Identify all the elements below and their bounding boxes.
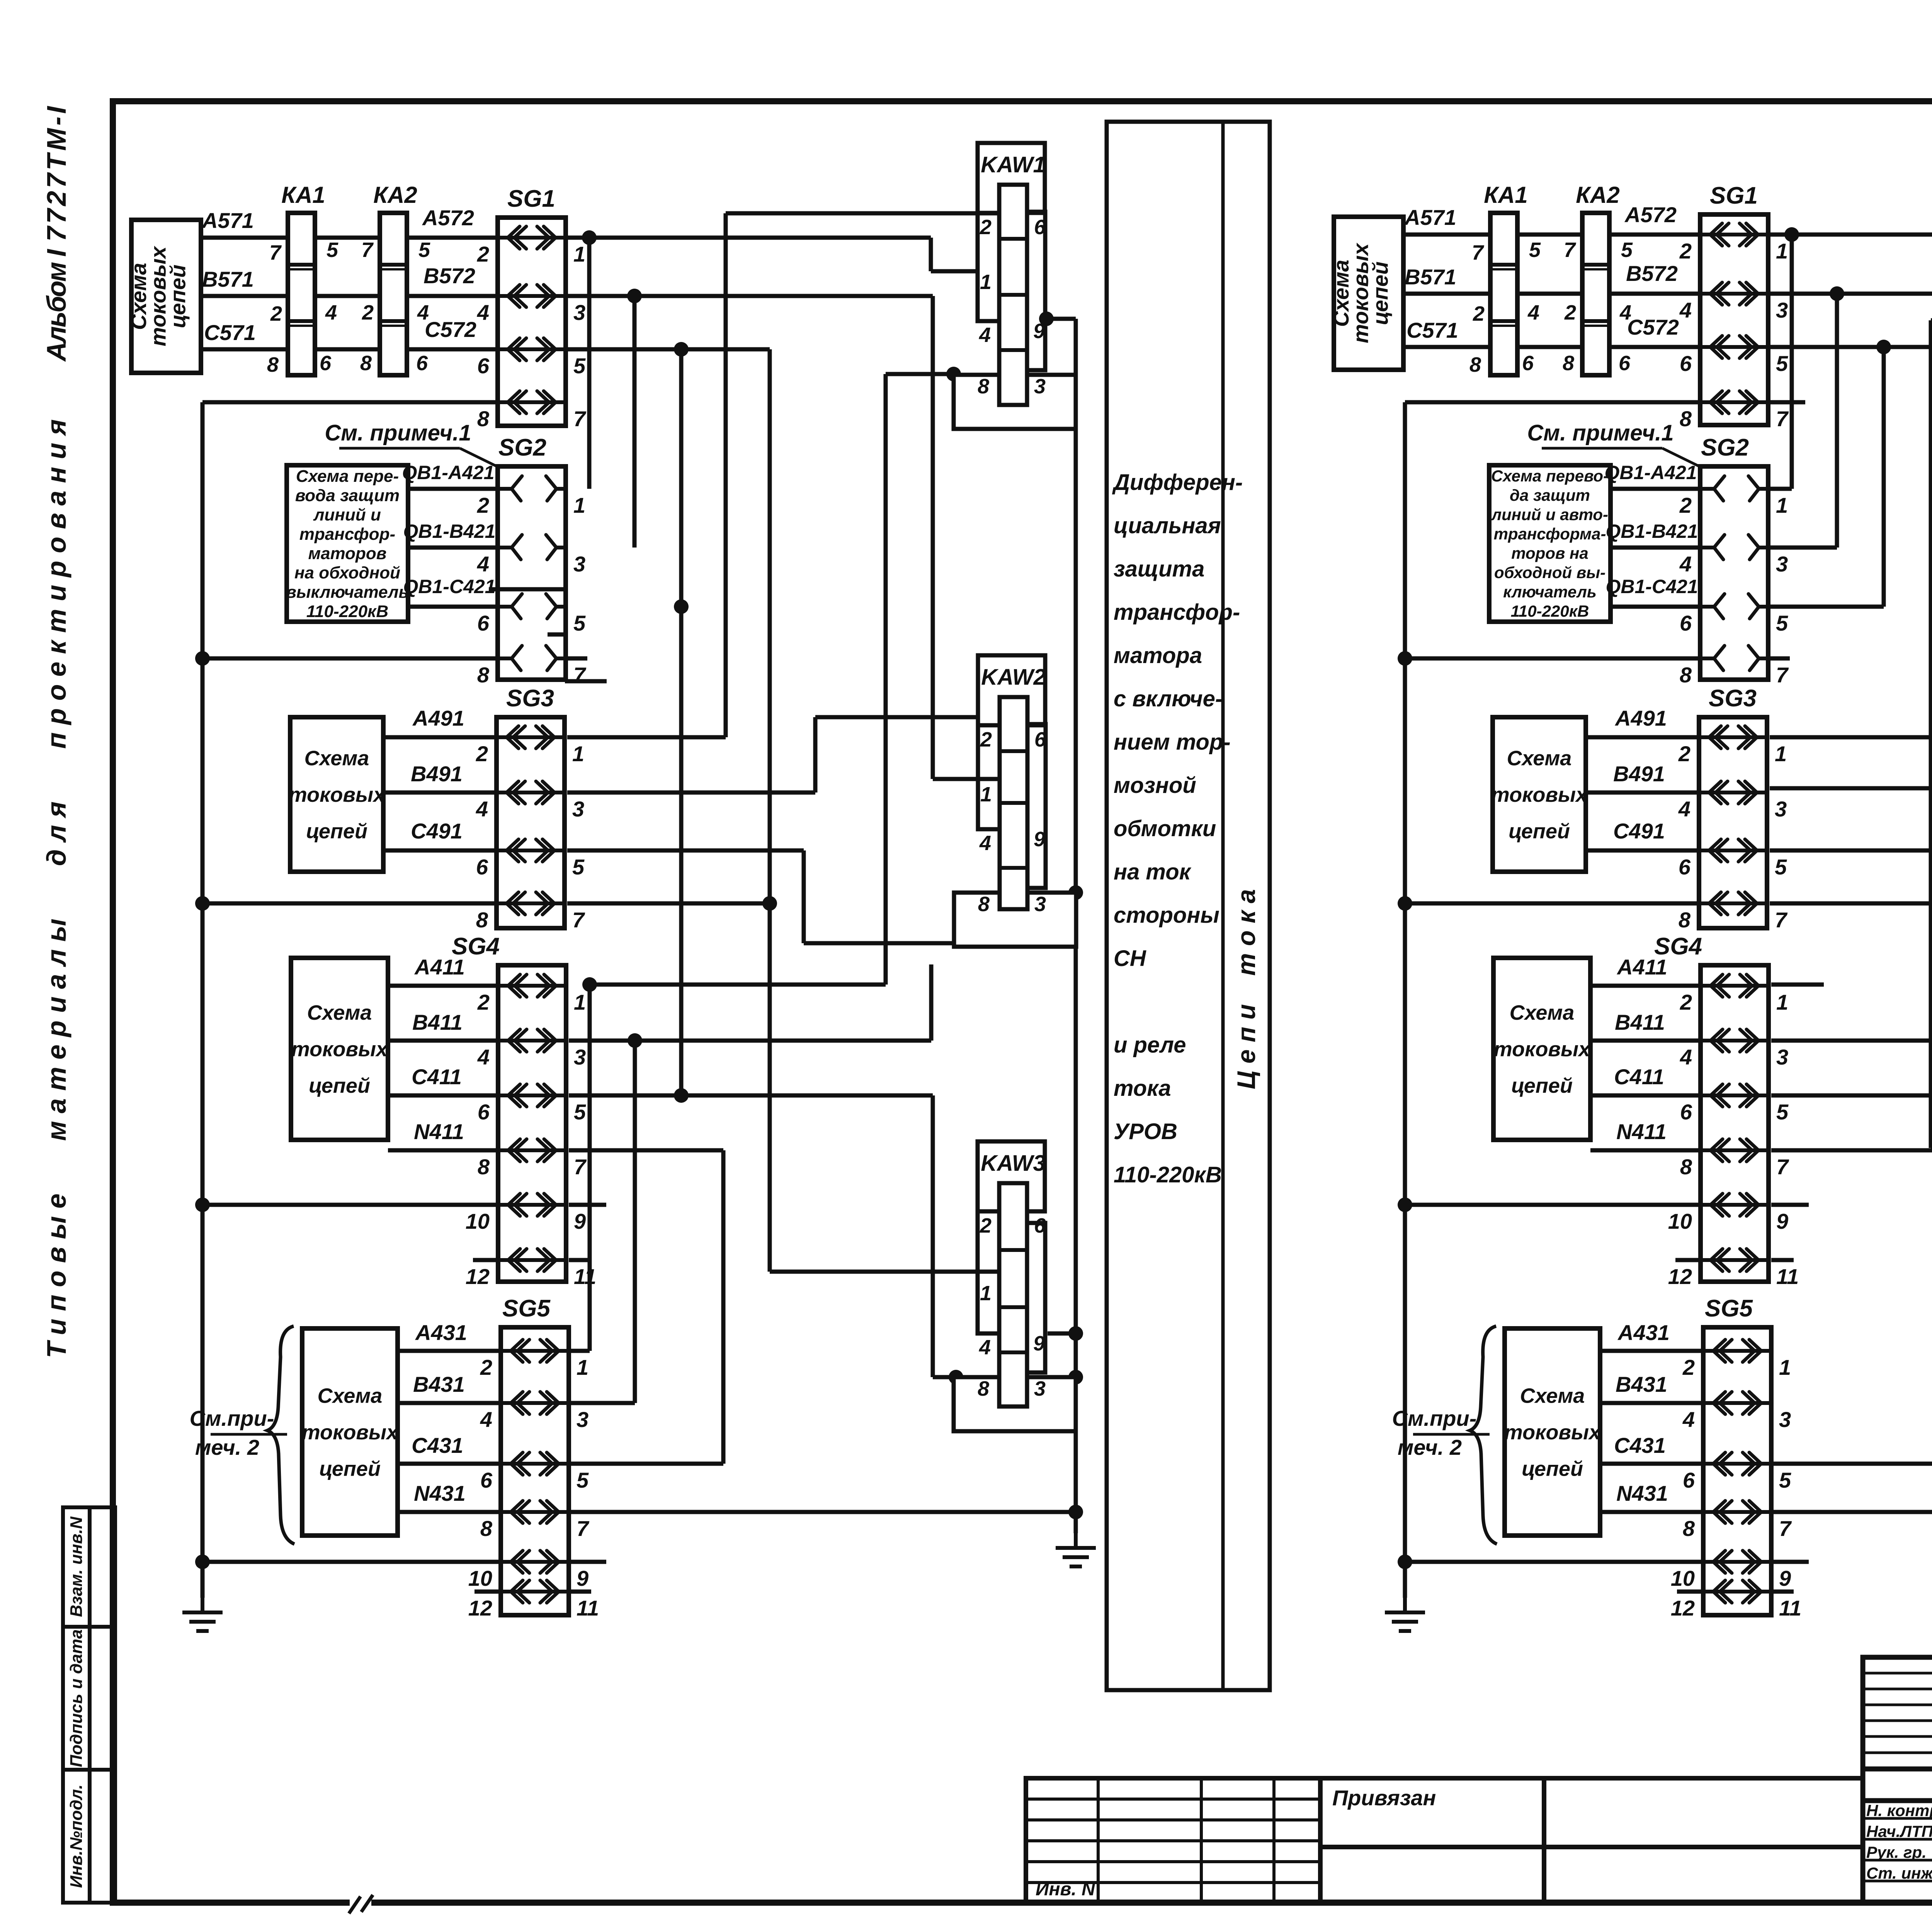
relay КА2 — [380, 213, 407, 375]
svg-text:КА2: КА2 — [373, 182, 417, 208]
svg-text:1: 1 — [980, 1282, 992, 1305]
wire C571-C572 row (left) — [201, 347, 498, 352]
svg-text:SG3: SG3 — [1709, 685, 1757, 712]
svg-text:2: 2 — [1473, 302, 1485, 325]
svg-text:циальная: циальная — [1114, 513, 1221, 538]
wire SG4 pin1 stub (right) — [1771, 983, 1824, 987]
test block SG1 — [1700, 214, 1768, 425]
svg-text:Н. контр.: Н. контр. — [1866, 1801, 1932, 1820]
wire box4 to SG4 pin6 — [388, 1094, 498, 1098]
svg-text:меч. 2: меч. 2 — [195, 1435, 259, 1459]
svg-text:тока: тока — [1114, 1076, 1171, 1101]
wire KAW3 box link — [1048, 1375, 1076, 1379]
svg-text:линий и авто-: линий и авто- — [1491, 505, 1608, 524]
wire box3 to SG3 pin6 (right) — [1586, 849, 1699, 853]
wire SG5 pin11 stub (right) — [1773, 1590, 1794, 1594]
wire SG4 pin10 row — [202, 1203, 498, 1207]
svg-text:2: 2 — [1564, 301, 1576, 324]
svg-text:цепей: цепей — [1511, 1074, 1573, 1097]
svg-text:11: 11 — [1779, 1596, 1801, 1620]
wire SG4 pin10 row (right) — [1405, 1203, 1701, 1207]
wire A571-A572 row (left) — [201, 236, 498, 240]
svg-text:SG5: SG5 — [1705, 1295, 1753, 1322]
right common bus — [1403, 402, 1407, 1598]
svg-text:В572: В572 — [423, 264, 475, 288]
svg-text:защита: защита — [1114, 556, 1204, 582]
wire box2 to SG2 pin6 — [408, 605, 498, 609]
svg-text:110-220кВ: 110-220кВ — [306, 602, 388, 621]
svg-text:3: 3 — [1779, 1407, 1791, 1432]
svg-text:5: 5 — [1529, 238, 1541, 262]
svg-text:Подпись и дата: Подпись и дата — [67, 1629, 86, 1767]
svg-text:2: 2 — [1678, 742, 1690, 766]
svg-text:3: 3 — [572, 797, 584, 821]
svg-text:6: 6 — [477, 611, 490, 635]
box Схема токовых цепей (571) — [131, 220, 201, 373]
svg-text:2: 2 — [477, 493, 489, 517]
svg-text:маторов: маторов — [308, 544, 387, 563]
ground — [182, 1598, 223, 1631]
wire box4 to SG4 pin2 — [388, 984, 498, 988]
svg-text:8: 8 — [978, 375, 989, 398]
wire box5 to SG5 pin4 (right) — [1600, 1401, 1703, 1405]
wire box2 to SG2 pin2 (right) — [1611, 487, 1700, 491]
svg-text:Взам. инв.N: Взам. инв.N — [67, 1516, 86, 1617]
wire SG4 pin3 to KAW2 lower box — [569, 1039, 931, 1043]
svg-text:3: 3 — [1775, 797, 1787, 821]
wire KAW1 pin8 to SG4 pin1 — [886, 372, 954, 376]
svg-text:2: 2 — [1679, 493, 1692, 517]
junction wire C / SG3 pin7 row (right) — [1770, 901, 1932, 906]
svg-text:5: 5 — [1775, 855, 1787, 879]
svg-text:4: 4 — [477, 1045, 490, 1069]
svg-text:1: 1 — [1775, 742, 1787, 766]
svg-text:вода защит: вода защит — [295, 486, 400, 505]
test block SG5 — [501, 1327, 569, 1615]
wire C572 net to KAW3 pin1 — [564, 347, 770, 352]
wire box3 to SG3 pin4 (right) — [1586, 791, 1699, 795]
svg-text:1: 1 — [980, 270, 992, 294]
svg-text:2: 2 — [980, 1214, 992, 1237]
wire box3 to SG3 pin2 — [383, 735, 497, 740]
brace for note 2 (right) — [1470, 1326, 1497, 1544]
wire SG3 pin1 to KAW1 pin2 — [724, 213, 728, 737]
svg-text:УРОВ: УРОВ — [1114, 1119, 1177, 1144]
wire SG4 pin11 stub (right) — [1771, 1258, 1794, 1262]
svg-text:В431: В431 — [1616, 1372, 1667, 1396]
svg-text:КА1: КА1 — [1484, 182, 1528, 208]
wire SG5 pin10 row — [202, 1560, 501, 1564]
svg-text:3: 3 — [577, 1407, 588, 1432]
wire box4 to SG4 pin8 (right) — [1590, 1148, 1701, 1153]
svg-text:токовых: токовых — [291, 1037, 388, 1061]
svg-text:9: 9 — [1033, 1332, 1045, 1355]
svg-text:11: 11 — [577, 1596, 599, 1620]
svg-text:Ц е п и т о к а: Ц е п и т о к а — [1232, 889, 1260, 1089]
svg-text:Схема: Схема — [318, 1384, 383, 1407]
svg-text:С411: С411 — [1614, 1065, 1664, 1089]
svg-text:7: 7 — [1776, 406, 1789, 431]
svg-text:В431: В431 — [413, 1372, 465, 1396]
wire SG3 pin5 to KAW2 pin8 — [567, 849, 804, 853]
test block SG3 — [497, 717, 565, 928]
box Схема перевода защит — [287, 465, 408, 622]
svg-text:В491: В491 — [411, 762, 463, 786]
wire SG4 pin9 stub — [569, 1203, 606, 1207]
svg-text:линий и: линий и — [313, 505, 381, 524]
svg-text:3: 3 — [573, 552, 585, 576]
svg-text:7: 7 — [1472, 241, 1485, 264]
box Схема токовых цепей (431, right) — [1505, 1328, 1600, 1536]
wire SG4 pin7 to SG5 pin5 (right) — [1771, 1148, 1932, 1153]
svg-text:цепей: цепей — [309, 1074, 370, 1097]
svg-text:Альбом I: Альбом I — [41, 248, 71, 362]
svg-text:SG5: SG5 — [502, 1295, 551, 1322]
wire box2 to SG2 pin4 (right) — [1611, 546, 1700, 550]
wire KAW1 pin9 link — [1046, 317, 1076, 321]
svg-text:SG1: SG1 — [507, 185, 555, 212]
wire SG5 pin7 to right collector (right) — [1773, 1510, 1932, 1514]
column box Дифференциальная защита (left) — [1107, 122, 1270, 1690]
svg-text:3: 3 — [1776, 1045, 1788, 1069]
svg-text:3: 3 — [1034, 375, 1046, 398]
svg-text:4: 4 — [480, 1407, 492, 1432]
junction wire A / SG2-1 branch — [582, 230, 597, 245]
svg-text:А491: А491 — [412, 706, 464, 730]
wire SG5 pin12 stub — [474, 1590, 501, 1594]
svg-text:5: 5 — [1779, 1468, 1791, 1492]
svg-text:токовых: токовых — [1491, 783, 1588, 806]
svg-text:8: 8 — [477, 663, 490, 687]
svg-text:6: 6 — [1034, 1214, 1046, 1237]
box Схема токовых цепей (491, right) — [1493, 717, 1586, 872]
wire box2 to SG2 pin4 — [408, 546, 498, 550]
svg-text:Инв. N: Инв. N — [1036, 1879, 1095, 1900]
svg-text:110-220кВ: 110-220кВ — [1511, 602, 1589, 620]
svg-text:8: 8 — [1680, 663, 1692, 687]
test block SG4 — [498, 965, 566, 1282]
svg-text:А572: А572 — [422, 206, 474, 230]
svg-text:7: 7 — [1775, 908, 1788, 932]
svg-text:8: 8 — [1680, 406, 1692, 431]
small revision table bottom centre — [1026, 1778, 1320, 1903]
svg-text:6: 6 — [1679, 855, 1691, 879]
svg-text:С411: С411 — [412, 1065, 462, 1089]
wire A572 net to KAW1 pin1 — [564, 236, 931, 240]
test block SG3 — [1699, 717, 1767, 928]
ground — [1056, 1533, 1096, 1566]
svg-text:4: 4 — [1682, 1407, 1695, 1432]
svg-text:6: 6 — [1034, 728, 1046, 751]
wire SG5 pin9 stub (right) — [1773, 1560, 1809, 1564]
svg-text:6: 6 — [480, 1468, 493, 1492]
wire box3 to SG3 pin6 — [383, 849, 497, 853]
wire B572 net to KAW2 pin1 — [564, 294, 933, 298]
svg-text:Схема пере-: Схема пере- — [296, 467, 399, 486]
wire SG4 pin9 stub (right) — [1771, 1203, 1809, 1207]
svg-text:3: 3 — [1776, 552, 1788, 576]
svg-text:1: 1 — [1776, 493, 1788, 517]
svg-text:10: 10 — [1671, 1566, 1695, 1590]
wire C571 row (right) — [1403, 345, 1700, 349]
wire SG2 pin8 row (right) — [1405, 656, 1700, 661]
svg-text:8: 8 — [476, 908, 488, 932]
wire SG5 pin10 row (right) — [1405, 1560, 1703, 1564]
svg-text:цепей: цепей — [1368, 262, 1392, 325]
svg-text:4: 4 — [979, 323, 991, 347]
svg-text:стороны: стороны — [1114, 903, 1219, 928]
svg-text:В572: В572 — [1626, 261, 1678, 286]
svg-text:В411: В411 — [412, 1010, 463, 1034]
svg-text:А431: А431 — [1617, 1320, 1670, 1345]
wire v2 to SG2 pin3 (right) — [1835, 294, 1839, 548]
svg-text:N431: N431 — [1616, 1481, 1668, 1505]
relay КА1 — [288, 213, 315, 375]
svg-text:2: 2 — [980, 728, 992, 751]
svg-text:SG2: SG2 — [1701, 434, 1749, 461]
svg-text:4: 4 — [1527, 301, 1539, 324]
svg-text:2: 2 — [980, 216, 992, 239]
svg-text:А411: А411 — [414, 955, 465, 979]
svg-text:7: 7 — [572, 908, 585, 932]
svg-text:7: 7 — [577, 1516, 590, 1541]
wire SG5 pin12 stub (right) — [1677, 1590, 1703, 1594]
svg-text:5: 5 — [577, 1468, 589, 1492]
right collector riser (left half) — [1074, 319, 1078, 1533]
svg-text:6: 6 — [1522, 352, 1534, 375]
wire SG4 pin12 stub — [473, 1258, 498, 1262]
svg-text:10: 10 — [468, 1566, 492, 1590]
svg-text:цепей: цепей — [1509, 820, 1570, 843]
svg-text:7: 7 — [574, 1155, 587, 1179]
svg-text:6: 6 — [1680, 611, 1692, 635]
svg-text:3: 3 — [1034, 1377, 1046, 1400]
junction wire C / SG3 pin7 row — [567, 901, 770, 906]
svg-text:А571: А571 — [201, 208, 254, 233]
svg-text:9: 9 — [577, 1566, 588, 1590]
svg-text:цепей: цепей — [1522, 1457, 1583, 1480]
svg-text:и реле: и реле — [1114, 1032, 1186, 1058]
svg-text:1: 1 — [573, 493, 585, 517]
wire box4 to SG4 pin2 (right) — [1590, 984, 1701, 988]
wire SG3 pin8 row — [203, 901, 497, 906]
test block SG2 — [498, 466, 566, 680]
svg-text:Схема: Схема — [1507, 747, 1572, 770]
relay KAW3 — [978, 1141, 1045, 1211]
svg-text:выключатель: выключатель — [286, 583, 408, 602]
svg-text:токовых: токовых — [1494, 1037, 1591, 1061]
junction wire B / SG2-3 branch — [627, 289, 642, 303]
svg-text:токовых: токовых — [289, 783, 386, 806]
svg-text:3: 3 — [1776, 298, 1788, 322]
svg-text:С571: С571 — [204, 320, 256, 345]
svg-text:1: 1 — [572, 742, 584, 766]
svg-text:КА1: КА1 — [281, 182, 325, 208]
wire v1 to SG2 pin1 (right) — [1790, 235, 1794, 489]
wire box5 to SG5 pin6 (right) — [1600, 1462, 1703, 1466]
svg-text:8: 8 — [1679, 908, 1691, 932]
svg-text:7: 7 — [1776, 1155, 1789, 1179]
junction wire C / SG2-5 branch — [674, 342, 689, 357]
wire SG3 pin3 to KAW2 pin1 (right) — [1770, 786, 1932, 791]
wire B571 row (right) — [1403, 292, 1700, 296]
wire v1 to SG2 pin1 — [587, 238, 592, 489]
box Схема перевода защит (right) — [1489, 465, 1611, 622]
svg-text:6: 6 — [1680, 351, 1692, 376]
svg-text:2: 2 — [477, 242, 489, 266]
svg-text:9: 9 — [1034, 828, 1045, 851]
wire SG2 pin7 stub — [565, 656, 587, 661]
svg-text:меч. 2: меч. 2 — [1398, 1435, 1462, 1459]
box Схема токовых цепей (491) — [290, 717, 383, 872]
svg-text:3: 3 — [574, 1045, 586, 1069]
svg-text:4: 4 — [477, 300, 489, 325]
svg-text:7: 7 — [1779, 1516, 1792, 1541]
wire C572 net to KAW3 pin8 (right) — [1766, 345, 1932, 349]
svg-text:QВ1-С421: QВ1-С421 — [403, 576, 496, 597]
svg-text:2: 2 — [1682, 1355, 1695, 1379]
svg-text:обмотки: обмотки — [1114, 816, 1216, 841]
left attachment strip boxes — [63, 1507, 115, 1903]
svg-text:QВ1-С421: QВ1-С421 — [1606, 576, 1698, 597]
svg-text:8: 8 — [478, 1155, 490, 1179]
wire box5 to SG5 pin2 (right) — [1600, 1349, 1703, 1353]
svg-text:трансформа-: трансформа- — [1494, 525, 1606, 543]
svg-text:5: 5 — [1776, 351, 1788, 376]
test block SG5 — [1703, 1327, 1771, 1615]
svg-text:нием тор-: нием тор- — [1114, 730, 1231, 755]
svg-text:N411: N411 — [414, 1119, 464, 1144]
svg-text:8: 8 — [978, 1377, 989, 1400]
ground — [1385, 1598, 1425, 1631]
box Схема токовых цепей (411, right) — [1493, 958, 1590, 1140]
svg-text:110-220кВ: 110-220кВ — [1114, 1162, 1222, 1187]
svg-text:12: 12 — [468, 1596, 492, 1620]
svg-text:1: 1 — [577, 1355, 588, 1379]
svg-text:N411: N411 — [1616, 1119, 1667, 1144]
svg-text:А571: А571 — [1404, 205, 1456, 230]
svg-text:4: 4 — [1679, 552, 1692, 576]
svg-text:6: 6 — [478, 1100, 490, 1124]
svg-text:трансфор-: трансфор- — [299, 525, 395, 544]
svg-text:С572: С572 — [1627, 315, 1679, 339]
wire SG4 pin5 to KAW3 pin8 box — [569, 1094, 933, 1098]
wire SG1 pin8 row — [202, 400, 498, 405]
svg-text:В411: В411 — [1615, 1010, 1665, 1034]
svg-text:С571: С571 — [1406, 318, 1458, 342]
wire box5 to SG5 pin8 (right) — [1600, 1510, 1703, 1514]
svg-text:QВ1-А421: QВ1-А421 — [1605, 462, 1697, 483]
wire box5 to SG5 pin4 — [398, 1401, 501, 1405]
svg-text:Рук. гр.: Рук. гр. — [1866, 1843, 1927, 1861]
brace for note 2 — [267, 1326, 294, 1544]
wire box4 to SG4 pin8 — [388, 1148, 498, 1153]
relay KAW2 — [978, 655, 1045, 725]
svg-text:обходной вы-: обходной вы- — [1494, 563, 1605, 582]
wire SG4 pin7 to SG5 pin5 — [569, 1148, 723, 1153]
wire A572 net to KAW1 pin8 (right) — [1766, 233, 1932, 237]
svg-text:СН: СН — [1114, 946, 1146, 971]
svg-text:В571: В571 — [1405, 265, 1456, 289]
svg-text:А572: А572 — [1624, 202, 1677, 227]
svg-text:КА2: КА2 — [1576, 182, 1620, 208]
svg-text:Ст. инж: Ст. инж — [1866, 1864, 1932, 1882]
wire v2 to SG2 pin3 — [633, 296, 637, 548]
wire SG1 pin8 row (right) — [1405, 400, 1700, 405]
wire SG3 pin3 to KAW2 pin2 — [567, 791, 815, 795]
svg-text:цепей: цепей — [306, 820, 367, 843]
svg-text:4: 4 — [325, 301, 337, 324]
wire box4 to SG4 pin6 (right) — [1590, 1094, 1701, 1098]
svg-text:7: 7 — [361, 238, 374, 262]
svg-text:SG3: SG3 — [506, 685, 554, 712]
svg-text:С572: С572 — [425, 317, 476, 342]
svg-text:2: 2 — [477, 990, 490, 1014]
svg-text:токовых: токовых — [302, 1421, 399, 1444]
svg-text:токовых: токовых — [1504, 1421, 1601, 1444]
svg-text:KAW2: KAW2 — [981, 665, 1046, 690]
svg-text:5: 5 — [1621, 238, 1633, 262]
svg-text:Инв.№подл.: Инв.№подл. — [67, 1784, 86, 1888]
svg-text:6: 6 — [1683, 1468, 1695, 1492]
svg-text:Схема: Схема — [307, 1001, 372, 1024]
wire SG2 pin8 row — [202, 656, 498, 661]
svg-text:11: 11 — [1776, 1264, 1799, 1289]
svg-text:5: 5 — [573, 611, 586, 635]
svg-text:3: 3 — [1034, 893, 1046, 916]
svg-text:KAW3: KAW3 — [981, 1151, 1046, 1176]
svg-text:7: 7 — [269, 241, 282, 264]
wire SG1 pin7 stub (right) — [1767, 400, 1805, 405]
svg-text:матора: матора — [1114, 643, 1202, 668]
wire SG5 pin9 stub — [570, 1560, 606, 1564]
test block SG1 — [498, 218, 566, 426]
svg-text:4: 4 — [1679, 298, 1692, 322]
svg-text:6: 6 — [1034, 216, 1046, 239]
svg-text:2: 2 — [270, 302, 282, 325]
svg-text:6: 6 — [1619, 352, 1631, 375]
svg-text:7: 7 — [1564, 238, 1577, 262]
wire KAW3 pin9 link — [1048, 1332, 1076, 1336]
wire riser SG5 pin3 — [633, 1041, 637, 1403]
box Схема токовых цепей (571, right) — [1334, 217, 1403, 370]
svg-text:10: 10 — [466, 1209, 490, 1233]
svg-text:Схема: Схема — [304, 747, 369, 770]
svg-text:8: 8 — [978, 893, 990, 916]
svg-text:В491: В491 — [1613, 762, 1665, 786]
svg-text:4: 4 — [1680, 1045, 1692, 1069]
svg-text:См. примеч.1: См. примеч.1 — [325, 420, 471, 446]
wire SG3 pin8 row (right) — [1406, 901, 1699, 906]
title block thin lines — [1863, 1657, 1932, 1903]
box Схема токовых цепей (411) — [291, 958, 388, 1140]
svg-text:5: 5 — [573, 354, 586, 378]
svg-text:5: 5 — [1776, 1100, 1789, 1124]
wire A571 row (right) — [1403, 233, 1700, 237]
bottom border break mark — [350, 1893, 371, 1913]
svg-text:См. примеч.1: См. примеч.1 — [1527, 420, 1673, 446]
svg-text:5: 5 — [418, 238, 430, 262]
wire SG4 pin5 to KAW3 pin4 (right) — [1771, 1094, 1932, 1098]
wire box2 to SG2 pin6 (right) — [1611, 605, 1700, 609]
svg-text:8: 8 — [1469, 353, 1481, 376]
wire box4 to SG4 pin4 (right) — [1590, 1039, 1701, 1043]
svg-text:С431: С431 — [1614, 1433, 1666, 1458]
svg-text:9: 9 — [1779, 1566, 1791, 1590]
svg-text:1: 1 — [573, 242, 585, 266]
svg-text:мозной: мозной — [1114, 773, 1196, 798]
svg-text:QВ1-В421: QВ1-В421 — [1606, 520, 1698, 542]
